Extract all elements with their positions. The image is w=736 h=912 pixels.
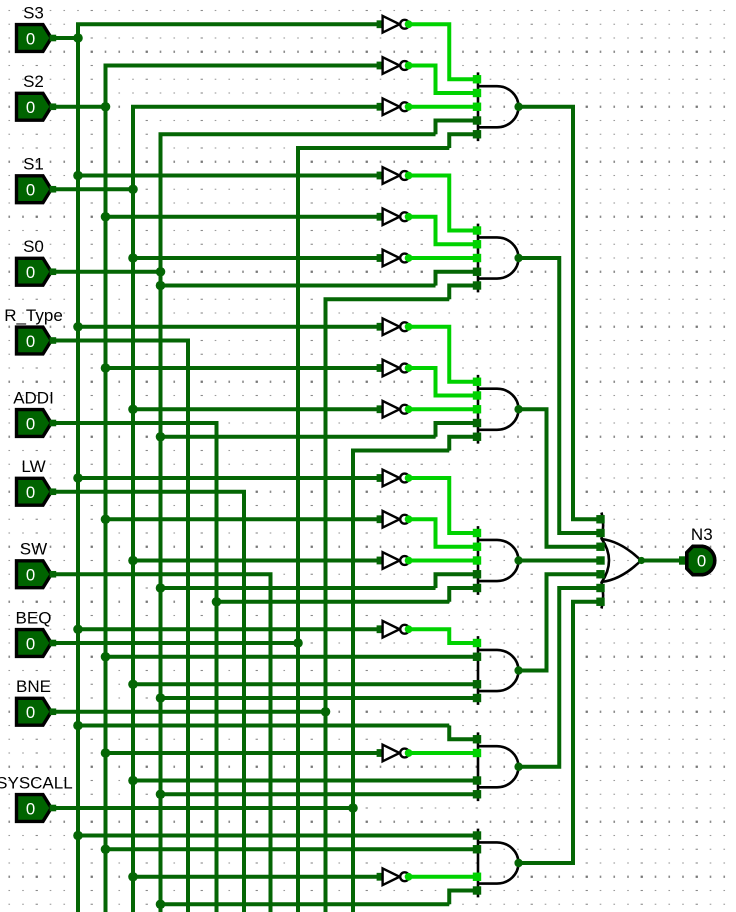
- wire S0 branch: [161, 696, 477, 700]
- junction: [73, 831, 83, 841]
- wire S2 pin stub: [51, 105, 106, 109]
- svg-text:S2: S2: [23, 72, 44, 91]
- wire inverter output: [409, 407, 477, 411]
- junction: [101, 363, 111, 373]
- wire to inverter: [78, 627, 381, 631]
- junction: [156, 789, 166, 799]
- wire A3 output: [519, 409, 601, 547]
- port A6 input 1: [473, 735, 481, 743]
- wire net BEQ column: [298, 148, 449, 912]
- wire A7 output: [519, 602, 601, 863]
- svg-text:0: 0: [26, 29, 35, 48]
- port A7 input 2: [473, 845, 481, 853]
- junction: [128, 253, 138, 263]
- wire S1 branch: [133, 682, 477, 686]
- wire SYSCALL pin stub: [51, 806, 353, 810]
- wire to inverter: [133, 407, 381, 411]
- wire S1 branch: [133, 779, 477, 783]
- wire to inverter: [133, 559, 381, 563]
- svg-text:LW: LW: [21, 457, 45, 476]
- wire net SYSCALL column: [353, 451, 449, 912]
- input pin S0: [17, 258, 57, 285]
- junction: [156, 583, 166, 593]
- wire to inverter: [78, 174, 381, 178]
- junction: [128, 872, 138, 882]
- wire ADDI branch: [217, 600, 450, 604]
- wire net S0 column: [161, 134, 436, 912]
- junction: [101, 212, 111, 222]
- wire A2 output: [519, 258, 601, 533]
- svg-text:BEQ: BEQ: [16, 608, 52, 627]
- wire inverter output: [409, 105, 477, 109]
- wire A4 output: [519, 559, 601, 563]
- svg-text:S3: S3: [23, 3, 44, 22]
- input pin BNE: [17, 698, 57, 725]
- input pin SW: [17, 561, 57, 588]
- junction: [321, 707, 331, 717]
- wire inverter output: [409, 217, 477, 245]
- junction: [156, 267, 166, 277]
- svg-text:0: 0: [26, 332, 35, 351]
- AND gate A1: [478, 72, 523, 141]
- label BNE: [16, 677, 51, 696]
- port A3 input 2: [473, 391, 481, 399]
- wire net LW column: [51, 492, 244, 912]
- wire A6 output: [519, 588, 601, 767]
- wire net S2 column: [106, 66, 381, 912]
- port A4 input 3: [473, 556, 481, 564]
- svg-text:S1: S1: [23, 155, 44, 174]
- output pin N3: [679, 546, 715, 574]
- input pin S2: [17, 93, 57, 120]
- port A3 input 4: [473, 419, 481, 427]
- port A3 input 5: [473, 433, 481, 441]
- junction: [101, 514, 111, 524]
- wire to inverter: [133, 256, 381, 260]
- AND gate A5: [478, 636, 523, 705]
- wire inverter output: [409, 66, 477, 94]
- wire OR output to N3: [642, 559, 682, 563]
- wire inverter output: [409, 368, 477, 396]
- wire net S1 column: [133, 107, 381, 912]
- AND gate A7: [478, 829, 523, 898]
- svg-text:N3: N3: [691, 525, 713, 544]
- port A7 input 4: [473, 873, 481, 881]
- port A2 input 5: [473, 281, 481, 289]
- svg-text:SYSCALL: SYSCALL: [0, 773, 73, 792]
- wire S1 pin stub: [51, 187, 133, 191]
- port A3 input 1: [473, 378, 481, 386]
- label S1: [23, 155, 44, 174]
- wire S2 branch: [106, 655, 477, 659]
- AND gate A2: [478, 224, 523, 293]
- inverter NOT13: [377, 621, 413, 638]
- wire inverter output: [409, 751, 477, 755]
- junction: [293, 638, 303, 648]
- wire to inverter: [106, 366, 381, 370]
- svg-text:0: 0: [26, 483, 35, 502]
- wire net BNE column: [326, 299, 450, 912]
- wire to inverter: [133, 875, 381, 879]
- input pin BEQ: [17, 630, 57, 657]
- wire inverter output: [409, 629, 477, 643]
- label SW: [20, 540, 47, 559]
- wire jog: [449, 588, 477, 602]
- wire inverter output: [409, 176, 477, 231]
- port A4 input 2: [473, 543, 481, 551]
- port OR1 input 5: [596, 570, 604, 578]
- inverter NOT2: [377, 57, 413, 74]
- port A1 input 2: [473, 89, 481, 97]
- svg-text:0: 0: [26, 98, 35, 117]
- junction: [128, 776, 138, 786]
- wire S0 branch: [161, 902, 450, 906]
- AND gate A6: [478, 732, 523, 801]
- junction: [101, 748, 111, 758]
- wire S0 branch: [161, 435, 436, 439]
- label BEQ: [16, 608, 52, 627]
- wire S3 branch: [78, 724, 449, 728]
- junction: [73, 473, 83, 483]
- port A2 input 2: [473, 240, 481, 248]
- junction: [101, 652, 111, 662]
- wire to inverter: [106, 517, 381, 521]
- junction: [128, 184, 138, 194]
- wire jog: [449, 286, 477, 300]
- junction: [73, 322, 83, 332]
- OR gate OR1: [601, 513, 645, 609]
- port A1 input 1: [473, 75, 481, 83]
- junction: [73, 624, 83, 634]
- port A7 input 1: [473, 831, 481, 839]
- inverter NOT8: [377, 360, 413, 377]
- port A7 input 5: [473, 886, 481, 894]
- wire BEQ pin stub: [51, 641, 298, 645]
- wire jog: [449, 891, 477, 905]
- port A4 input 4: [473, 570, 481, 578]
- port A4 input 1: [473, 529, 481, 537]
- junction: [101, 102, 111, 112]
- wire jog: [449, 726, 477, 740]
- svg-text:S0: S0: [23, 237, 44, 256]
- input pin R_Type: [17, 327, 57, 354]
- port A2 input 1: [473, 226, 481, 234]
- AND gate A4: [478, 526, 523, 595]
- input pin LW: [17, 478, 57, 505]
- AND gate A3: [478, 375, 523, 444]
- label SYSCALL: [0, 773, 73, 792]
- port A6 input 4: [473, 776, 481, 784]
- input pin S1: [17, 176, 57, 203]
- port A5 input 5: [473, 694, 481, 702]
- wire jog: [436, 272, 477, 286]
- junction: [156, 432, 166, 442]
- wire net S3 column: [78, 24, 381, 912]
- input pin SYSCALL: [17, 795, 57, 822]
- inverter NOT12: [377, 552, 413, 569]
- wire to inverter: [78, 325, 381, 329]
- junction: [156, 281, 166, 291]
- junction: [128, 556, 138, 566]
- wire to inverter: [106, 751, 381, 755]
- wire net SW column: [51, 574, 271, 912]
- wire inverter output: [409, 875, 477, 879]
- label N3: [691, 525, 713, 544]
- svg-text:0: 0: [26, 414, 35, 433]
- junction: [128, 404, 138, 414]
- junction: [73, 721, 83, 731]
- port A2 input 4: [473, 268, 481, 276]
- wire to inverter: [106, 215, 381, 219]
- port A5 input 1: [473, 639, 481, 647]
- wire jog: [449, 437, 477, 451]
- inverter NOT5: [377, 208, 413, 225]
- port OR1 input 3: [596, 543, 604, 551]
- wire jog: [449, 134, 477, 148]
- port OR1 input 7: [596, 598, 604, 606]
- svg-text:0: 0: [697, 552, 706, 571]
- port OR1 input 2: [596, 529, 604, 537]
- label R_Type: [4, 306, 63, 325]
- svg-text:BNE: BNE: [16, 677, 51, 696]
- svg-text:ADDI: ADDI: [13, 388, 54, 407]
- port OR1 input 1: [596, 515, 604, 523]
- junction: [156, 899, 166, 909]
- svg-text:0: 0: [26, 181, 35, 200]
- junction: [348, 803, 358, 813]
- wire inverter output: [409, 327, 477, 382]
- port A2 input 3: [473, 254, 481, 262]
- wire A5 output: [519, 574, 601, 670]
- wire jog: [436, 574, 477, 588]
- wire inverter output: [409, 519, 477, 547]
- input pin S3: [17, 25, 57, 52]
- label S3: [23, 3, 44, 22]
- wire inverter output: [409, 24, 477, 79]
- junction: [73, 33, 83, 43]
- svg-text:R_Type: R_Type: [4, 306, 63, 325]
- svg-text:0: 0: [26, 634, 35, 653]
- inverter NOT7: [377, 318, 413, 335]
- svg-text:0: 0: [26, 566, 35, 585]
- svg-text:0: 0: [26, 703, 35, 722]
- wire net R_Type column: [51, 341, 188, 912]
- svg-text:0: 0: [26, 263, 35, 282]
- wire S0 branch: [161, 792, 477, 796]
- wire inverter output: [409, 559, 477, 563]
- wire S0 pin stub: [51, 270, 161, 274]
- port OR1 input 6: [596, 584, 604, 592]
- inverter NOT15: [377, 868, 413, 885]
- inverter NOT3: [377, 98, 413, 115]
- port A3 input 3: [473, 405, 481, 413]
- wire jog: [436, 423, 477, 437]
- wire net ADDI column: [51, 423, 217, 912]
- wire inverter output: [409, 478, 477, 533]
- junction: [128, 679, 138, 689]
- svg-text:0: 0: [26, 799, 35, 818]
- port A5 input 2: [473, 653, 481, 661]
- label S0: [23, 237, 44, 256]
- inverter NOT6: [377, 250, 413, 267]
- wire to inverter: [78, 476, 381, 480]
- port A1 input 4: [473, 116, 481, 124]
- inverter NOT10: [377, 470, 413, 487]
- port A5 input 4: [473, 680, 481, 688]
- inverter NOT9: [377, 401, 413, 418]
- junction: [101, 844, 111, 854]
- wire S0 branch: [161, 284, 436, 288]
- wire BNE pin stub: [51, 710, 326, 714]
- port A6 input 5: [473, 790, 481, 798]
- wire S2 branch: [106, 847, 477, 851]
- wire S3 pin stub: [51, 36, 78, 40]
- svg-text:SW: SW: [20, 540, 47, 559]
- port A1 input 5: [473, 130, 481, 138]
- wire A1 output: [519, 107, 601, 520]
- port A1 input 3: [473, 103, 481, 111]
- wire jog: [436, 121, 477, 135]
- port A6 input 2: [473, 749, 481, 757]
- label S2: [23, 72, 44, 91]
- inverter NOT1: [377, 16, 413, 33]
- inverter NOT4: [377, 167, 413, 184]
- inverter NOT14: [377, 745, 413, 762]
- label LW: [21, 457, 45, 476]
- label ADDI: [13, 388, 54, 407]
- wire S3 branch: [78, 834, 477, 838]
- port OR1 input 4: [596, 556, 604, 564]
- junction: [73, 171, 83, 181]
- port A4 input 5: [473, 584, 481, 592]
- wire inverter output: [409, 256, 477, 260]
- inverter NOT11: [377, 511, 413, 528]
- wire S0 branch: [161, 586, 436, 590]
- junction: [156, 693, 166, 703]
- input pin ADDI: [17, 410, 57, 437]
- junction: [212, 597, 222, 607]
